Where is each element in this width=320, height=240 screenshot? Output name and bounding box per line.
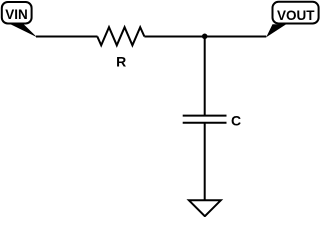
node A junction dot (202, 34, 208, 40)
ground (189, 200, 221, 216)
svg-text:R: R (116, 54, 126, 70)
wire R to node A (144, 36, 205, 38)
wire VIN to R (36, 36, 98, 38)
svg-text:VIN: VIN (5, 7, 28, 22)
wire node A to C (204, 37, 206, 116)
svg-text:VOUT: VOUT (277, 8, 315, 23)
resistor R (97, 27, 144, 45)
capacitor C (183, 116, 227, 123)
wire C to ground (204, 123, 206, 200)
svg-text:C: C (231, 113, 241, 129)
wire node A to VOUT (204, 36, 266, 38)
net label VOUT (266, 2, 318, 37)
net label VIN (2, 2, 37, 37)
